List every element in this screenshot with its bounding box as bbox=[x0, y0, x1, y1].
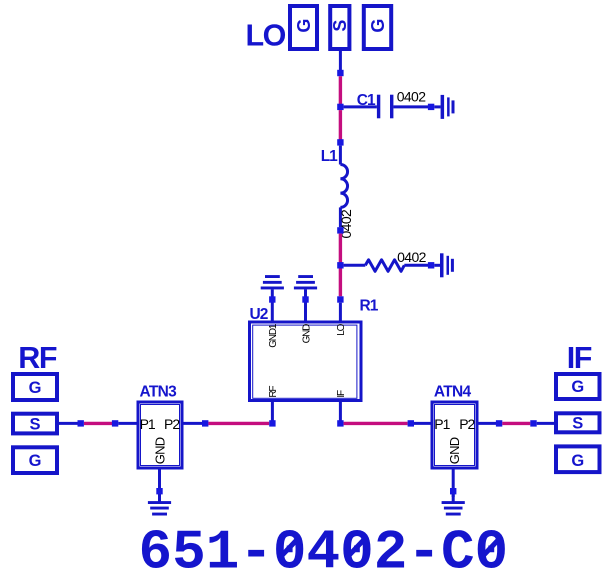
wire bbox=[537, 422, 554, 425]
vertex square bbox=[428, 104, 434, 110]
wire R1 branch bbox=[344, 264, 366, 267]
wire bbox=[434, 105, 440, 108]
wire bbox=[208, 422, 269, 425]
svg-text:G: G bbox=[571, 452, 584, 470]
inductor L1 bbox=[340, 146, 347, 228]
wire into U2 pin LO bbox=[339, 303, 342, 321]
svg-text:P2: P2 bbox=[164, 416, 180, 432]
wire stem bbox=[452, 494, 455, 501]
wire RF S-pad to ATN3 bbox=[59, 422, 78, 425]
svg-text:U2: U2 bbox=[250, 306, 268, 323]
svg-text:C1: C1 bbox=[357, 92, 376, 109]
pad S (LO center) bbox=[330, 6, 350, 49]
vertex square bbox=[78, 420, 84, 426]
wire ATN3 P2 to U2 RF bbox=[184, 422, 203, 425]
vertex square bbox=[112, 420, 118, 426]
vertex square bbox=[428, 262, 434, 268]
ground (above U2, pin GND1) bbox=[261, 275, 284, 289]
wire ATN4 P2 to IF S-pad bbox=[479, 422, 497, 425]
wire pin GND1 bbox=[271, 289, 274, 321]
vertex square bbox=[337, 139, 343, 145]
wire U2 IF to ATN4 bbox=[344, 422, 408, 425]
wire bbox=[393, 105, 428, 108]
wire (net LO) bbox=[339, 76, 342, 108]
svg-text:LO: LO bbox=[336, 323, 347, 335]
vertex square bbox=[302, 296, 308, 302]
vertex square bbox=[530, 420, 536, 426]
attenuator ATN4 body bbox=[432, 402, 477, 468]
attenuator ATN3 body bbox=[138, 402, 182, 468]
ground (above U2, pin GND) bbox=[294, 275, 317, 289]
svg-text:651-0402-C0: 651-0402-C0 bbox=[139, 520, 509, 573]
svg-text:S: S bbox=[572, 415, 583, 433]
vertex square bbox=[269, 296, 275, 302]
svg-text:GND1: GND1 bbox=[268, 323, 279, 348]
wire bbox=[404, 264, 428, 267]
pad G (RF bottom) bbox=[13, 447, 57, 473]
svg-text:P1: P1 bbox=[434, 416, 450, 432]
vertex square (corner U2 RF) bbox=[269, 420, 275, 426]
svg-text:P2: P2 bbox=[459, 416, 475, 432]
wire bbox=[84, 422, 112, 425]
svg-text:S: S bbox=[330, 20, 350, 32]
pad G (RF top) bbox=[13, 374, 57, 400]
wire ATN3 GND pin bbox=[158, 470, 161, 498]
vertex square bbox=[450, 488, 456, 494]
svg-text:GND: GND bbox=[447, 437, 462, 464]
svg-text:G: G bbox=[294, 19, 314, 33]
vertex square bbox=[202, 420, 208, 426]
wire bbox=[414, 422, 431, 425]
pad G (IF bottom) bbox=[556, 446, 600, 472]
wire bbox=[339, 269, 342, 297]
wire stem bbox=[158, 494, 161, 501]
wire pin GND bbox=[304, 289, 307, 321]
svg-text:P1: P1 bbox=[140, 416, 156, 432]
svg-text:G: G bbox=[368, 19, 388, 33]
svg-text:G: G bbox=[29, 379, 42, 397]
svg-text:R1: R1 bbox=[360, 298, 379, 315]
ground (below ATN3) bbox=[148, 501, 171, 515]
pad G (LO left) bbox=[290, 6, 317, 49]
wire bbox=[339, 110, 342, 142]
op-amp U2 body bbox=[250, 322, 362, 401]
vertex square bbox=[496, 420, 502, 426]
pad G (LO right) bbox=[364, 6, 391, 49]
svg-text:L1: L1 bbox=[321, 148, 338, 165]
svg-text:GND: GND bbox=[301, 324, 312, 344]
svg-text:0402: 0402 bbox=[397, 249, 427, 265]
wire bbox=[339, 234, 342, 263]
wire ATN4 GND pin bbox=[452, 470, 455, 498]
svg-text:LO: LO bbox=[246, 19, 286, 53]
vertex square bbox=[408, 420, 414, 426]
ground (right of R1) bbox=[440, 253, 454, 277]
wire C1 branch bbox=[344, 105, 377, 108]
pad S (RF mid) bbox=[13, 414, 57, 434]
title 651-0402-C0 bbox=[139, 520, 509, 573]
ground (below ATN4) bbox=[442, 501, 465, 515]
svg-text:RF: RF bbox=[18, 341, 57, 375]
svg-text:S: S bbox=[29, 415, 40, 433]
svg-text:0402: 0402 bbox=[397, 88, 427, 104]
svg-text:GND: GND bbox=[152, 437, 167, 464]
vertex square bbox=[337, 70, 343, 76]
svg-text:G: G bbox=[29, 452, 42, 470]
svg-text:IF: IF bbox=[336, 390, 347, 398]
svg-text:ATN4: ATN4 bbox=[434, 384, 472, 401]
svg-text:G: G bbox=[571, 378, 584, 396]
pad G (IF top) bbox=[556, 374, 600, 399]
junction node R1 tap bbox=[337, 262, 343, 268]
wire pin IF (U2 bottom) bbox=[339, 402, 342, 421]
ground (right of C1) bbox=[441, 95, 455, 119]
vertex square (corner U2 IF) bbox=[337, 420, 343, 426]
resistor R1 bbox=[365, 260, 404, 272]
wire S pad to vertex bbox=[339, 49, 342, 74]
vertex square bbox=[156, 488, 162, 494]
wire bbox=[434, 264, 440, 267]
svg-text:RF: RF bbox=[268, 386, 279, 398]
capacitor C1 bbox=[377, 95, 394, 119]
svg-text:IF: IF bbox=[567, 341, 592, 375]
vertex square (U2 pin LO) bbox=[337, 296, 343, 302]
svg-text:ATN3: ATN3 bbox=[140, 384, 178, 401]
vertex square bbox=[337, 227, 343, 233]
pad S (IF mid) bbox=[556, 413, 600, 432]
wire pin RF (U2 bottom) bbox=[271, 402, 274, 421]
wire bbox=[502, 422, 530, 425]
junction node C1 tap bbox=[337, 104, 343, 110]
wire bbox=[118, 422, 136, 425]
